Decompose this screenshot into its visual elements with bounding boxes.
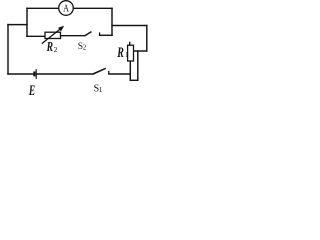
wire bottom left <box>8 73 33 75</box>
svg-text:R: R <box>46 39 53 54</box>
label R2 <box>46 39 58 54</box>
svg-text:2: 2 <box>83 43 87 51</box>
wire left outer vertical <box>7 25 9 74</box>
wire branch right <box>100 34 112 36</box>
svg-text:2: 2 <box>54 45 58 54</box>
label S1 <box>94 84 103 95</box>
wire branch left <box>27 35 45 37</box>
wire hook bottom <box>130 79 138 81</box>
svg-text:E: E <box>28 83 35 98</box>
ammeter A <box>59 1 74 16</box>
label E <box>28 83 35 99</box>
svg-text:A: A <box>63 2 69 14</box>
wire right junction vertical <box>111 8 113 35</box>
resistor R1 <box>128 45 134 61</box>
wire R1 bottom stub <box>129 61 131 80</box>
wire bottom right <box>109 73 131 75</box>
wire left stub <box>8 24 27 26</box>
wire upper-right horizontal <box>112 25 147 27</box>
wire top left <box>27 7 59 9</box>
battery E <box>34 69 36 79</box>
rheostat R2 <box>42 26 64 44</box>
svg-text:1: 1 <box>99 86 103 94</box>
wire branch middle <box>61 35 85 37</box>
wire left junction vertical <box>26 8 28 36</box>
switch S2 <box>85 32 100 36</box>
label R1 <box>117 45 129 61</box>
svg-text:R: R <box>117 45 124 61</box>
wire far right vertical <box>146 26 148 52</box>
switch S1 <box>93 68 109 74</box>
wire R1 top stub <box>129 43 131 46</box>
wire hook right vertical <box>137 51 139 80</box>
wire bottom middle <box>37 73 93 75</box>
wire R1 feed <box>134 50 147 52</box>
wire top right <box>74 7 112 9</box>
label S2 <box>78 42 87 52</box>
svg-text:1: 1 <box>125 51 129 59</box>
